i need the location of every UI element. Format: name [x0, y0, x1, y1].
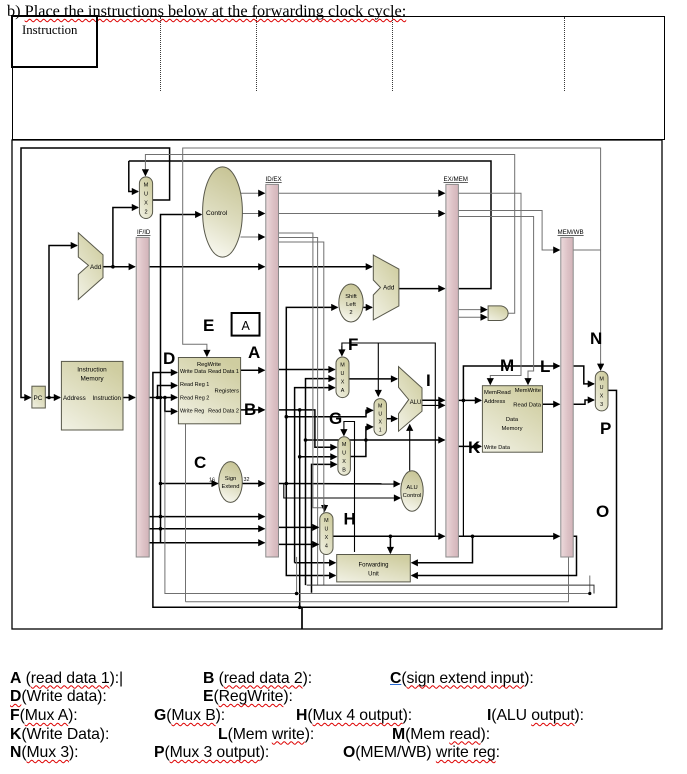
wire PC-source loop (MUX2 output to PC)	[21, 148, 170, 398]
PC register	[32, 386, 45, 408]
wire forward-A select arrow into MUX A top	[341, 346, 343, 356]
wire branch AND select loop back to MUX2	[145, 155, 514, 314]
pipeline register EX/MEM	[444, 176, 468, 557]
wire MUX 4 input 1	[279, 526, 319, 528]
diagram outer border	[12, 140, 662, 629]
wire control to ID/EX (M)	[242, 213, 264, 215]
svg-text:MemWrite: MemWrite	[515, 388, 541, 394]
svg-text:Read Reg 2: Read Reg 2	[180, 395, 209, 401]
wire immediate ID/EX to ALU control	[279, 483, 400, 485]
svg-text:A: A	[248, 343, 260, 362]
wire ALU result bypass to MEM/WB (node L area)	[463, 366, 559, 400]
node A boxed label	[232, 313, 260, 336]
wire ID/EX bottom nest	[296, 557, 298, 594]
wire MUX 3 output writeback to registers write data (nodes P and D)	[153, 373, 617, 608]
svg-text:ID/EX: ID/EX	[266, 176, 282, 183]
svg-text:O: O	[596, 502, 609, 521]
wire ALU zero flag to EX/MEM	[422, 404, 444, 406]
wire rs rt rail	[307, 585, 594, 593]
mux MUX 1 (ALUSrc)	[374, 399, 387, 436]
mux MUX B (forward B)	[338, 437, 351, 475]
wire instruction to read reg 1	[158, 386, 177, 398]
svg-text:K: K	[468, 438, 481, 457]
svg-text:32: 32	[244, 477, 250, 483]
wire write reg loop bottom	[165, 411, 590, 593]
wire AND gate input 1	[458, 309, 486, 311]
svg-text:E: E	[203, 316, 214, 335]
wire registers column to bottom nest	[185, 424, 187, 602]
svg-text:Address: Address	[63, 395, 86, 402]
wire funct field to ALU control	[284, 484, 400, 499]
mux MUX2 (PC source)	[139, 177, 152, 219]
svg-text:M: M	[342, 442, 347, 448]
svg-text:Memory: Memory	[80, 376, 104, 383]
wire instruction up to control unit	[161, 215, 202, 398]
AND gate (branch)	[488, 306, 508, 321]
svg-text:X: X	[378, 420, 382, 426]
svg-text:Address: Address	[484, 399, 505, 405]
wire data memory read data to MEM/WB	[543, 403, 560, 405]
wire B column down to forwarding unit left 1	[295, 562, 336, 564]
svg-text:Instruction: Instruction	[77, 367, 107, 374]
svg-text:Sign: Sign	[225, 476, 237, 482]
wire ALU result to EX/MEM (node I)	[422, 399, 444, 401]
wire MUX 1 output to ALU	[386, 418, 397, 420]
svg-text:Add: Add	[383, 285, 395, 292]
wire instruction field 3 to ID/EX	[149, 542, 264, 544]
control unit ellipse	[203, 167, 243, 257]
wire instruction field 1 to ID/EX	[149, 516, 264, 518]
wire forward-A select into MUX A and MUX 1 tops	[342, 343, 435, 536]
wire writeback drop to bottom border	[301, 607, 303, 629]
wire MUX B output up to MUX 1 input 2	[350, 427, 372, 457]
wire rd field down to forwarding unit left 2	[279, 242, 324, 585]
svg-text:C: C	[194, 453, 206, 472]
wire branch target into MUX2 input 1	[129, 161, 138, 192]
svg-text:I: I	[426, 371, 431, 390]
data memory box	[482, 386, 542, 453]
wire ALU control output to ALU	[409, 425, 411, 471]
instruction header cell	[11, 15, 98, 68]
ALU control ellipse	[401, 471, 423, 511]
svg-text:Write Data: Write Data	[180, 369, 207, 375]
mux MUX 3 (writeback)	[595, 371, 608, 411]
svg-text:G: G	[329, 409, 342, 428]
wire branch adder output to EX/MEM	[399, 288, 445, 290]
svg-text:16: 16	[209, 478, 215, 484]
wire shift-left-2 output to branch adder	[363, 306, 372, 308]
wire PC value up to Add	[49, 246, 77, 398]
wire read data 2 ID/EX to MUX B	[279, 410, 337, 447]
svg-text:Read Data: Read Data	[513, 403, 541, 409]
wire ALU result forward line to EX/MEM	[306, 439, 445, 441]
svg-text:M: M	[144, 183, 149, 189]
svg-text:Left: Left	[346, 302, 356, 308]
svg-text:U: U	[378, 412, 382, 418]
wire EX/MEM ALU result to data memory address	[458, 399, 481, 401]
wire MUX 4 input 2	[279, 543, 319, 545]
svg-text:Data: Data	[506, 417, 519, 423]
svg-text:4: 4	[325, 544, 328, 550]
wire read data 1 ID/EX to MUX A	[279, 369, 335, 371]
svg-text:Unit: Unit	[368, 572, 379, 578]
svg-text:L: L	[540, 357, 550, 376]
svg-text:F: F	[348, 335, 358, 354]
svg-text:M: M	[340, 363, 345, 369]
svg-text:Instruction: Instruction	[92, 395, 121, 402]
wire instruction bus IF/ID to registers read reg 2	[149, 397, 177, 399]
adder Add (PC+4)	[78, 233, 103, 300]
wire MEM/WB ALU result to MUX 3 input 1	[573, 366, 594, 384]
wire write reg number EX/MEM to MEM/WB	[458, 535, 559, 537]
sign extend ellipse	[209, 462, 250, 503]
svg-text:Memory: Memory	[502, 426, 523, 432]
svg-text:M: M	[500, 356, 514, 375]
pipeline register IF/ID	[136, 229, 151, 557]
wire forward WB to MUX B input 3	[312, 464, 337, 592]
mux MUX A (forward A)	[336, 357, 349, 398]
svg-text:U: U	[341, 371, 345, 377]
svg-text:RegWrite: RegWrite	[197, 362, 221, 368]
svg-text:MemRead: MemRead	[484, 390, 511, 396]
svg-text:IF/ID: IF/ID	[137, 229, 151, 236]
wire PC to instruction memory address	[45, 397, 60, 399]
svg-text:X: X	[144, 201, 148, 207]
svg-text:Write Data: Write Data	[484, 445, 511, 451]
pipeline register ID/EX	[266, 176, 282, 557]
svg-text:Forwarding: Forwarding	[358, 563, 388, 569]
svg-text:U: U	[324, 527, 328, 533]
wire forward EX to MUX B input 2	[300, 456, 337, 458]
svg-text:D: D	[163, 349, 175, 368]
svg-text:A: A	[242, 319, 251, 333]
wire mem-write control down to data memory	[458, 217, 533, 385]
svg-text:MEM/WB: MEM/WB	[558, 229, 584, 236]
registers box	[178, 358, 240, 424]
wire EX/MEM rd column down to rail	[462, 400, 464, 536]
svg-text:Control: Control	[403, 493, 422, 499]
svg-text:M: M	[378, 404, 382, 410]
svg-text:X: X	[325, 535, 329, 541]
svg-text:X: X	[342, 459, 346, 465]
svg-text:U: U	[342, 451, 346, 457]
title	[7, 1, 406, 21]
svg-text:M: M	[324, 518, 329, 524]
adder Add (branch target)	[373, 255, 399, 320]
svg-text:Write Reg: Write Reg	[180, 408, 204, 414]
svg-text:ALU: ALU	[410, 400, 422, 406]
wire instruction to write reg	[165, 398, 177, 412]
bottom label block	[10, 670, 123, 688]
svg-text:H: H	[344, 510, 356, 529]
wire rs field to MUX 4 top	[279, 233, 325, 509]
svg-text:Add: Add	[90, 264, 102, 271]
svg-text:Extend: Extend	[221, 484, 239, 490]
svg-text:U: U	[600, 385, 604, 391]
wire PC+4 ID/EX to branch adder	[279, 266, 372, 268]
wire write data into data memory (node K)	[458, 445, 481, 447]
wire MEM/WB read data to MUX 3 input 2	[573, 400, 594, 404]
svg-text:U: U	[144, 192, 148, 198]
svg-text:B: B	[244, 400, 256, 419]
wire instruction field 2 to ID/EX	[149, 528, 264, 530]
wire instruction down to sign extend and fields	[160, 398, 162, 543]
wire forward WB to MUX A input 3	[295, 388, 335, 563]
svg-text:Shift: Shift	[345, 294, 357, 300]
instruction memory	[61, 361, 123, 430]
wire sign extend output to ID/EX	[242, 483, 264, 485]
wire instruction memory output into IF/ID	[123, 397, 135, 399]
wire control to ID/EX (WB)	[241, 192, 265, 194]
wire PC+4 up into MUX2 input 2	[113, 208, 138, 267]
wire immediate up to shift left 2	[286, 307, 337, 483]
svg-text:A: A	[341, 388, 345, 394]
wire PC+4 IF/ID to ID/EX	[149, 266, 264, 268]
svg-text:M: M	[599, 377, 604, 383]
wire O rail to MEM/WB bottom	[186, 557, 569, 602]
wire AND gate input 2	[458, 316, 486, 318]
svg-text:Read Data 2: Read Data 2	[208, 408, 239, 414]
wire into sign extend	[161, 483, 218, 485]
mux MUX 4 (write reg number)	[320, 513, 333, 555]
shift left 2 ellipse	[339, 284, 363, 322]
svg-text:N: N	[590, 329, 602, 348]
table outer box	[12, 16, 665, 140]
svg-text:ALU: ALU	[406, 485, 417, 491]
wire MUX 4 output to EX/MEM write reg number	[333, 535, 444, 537]
wire forward select drop into MUX 1 top	[377, 343, 379, 394]
svg-text:P: P	[600, 419, 611, 438]
wire rt field down to forwarding unit left 1	[279, 238, 318, 586]
svg-text:EX/MEM: EX/MEM	[444, 176, 468, 183]
table column dotted lines	[160, 17, 161, 91]
wire node B down the forward column	[299, 410, 301, 607]
wire control ID/EX to EX/MEM line 1	[279, 192, 445, 194]
svg-text:PC: PC	[34, 395, 43, 402]
svg-text:3: 3	[600, 402, 603, 408]
wire read data 1 to ID/EX (node A)	[241, 369, 265, 371]
wire MUX A output to ALU	[349, 378, 397, 380]
wire control tee to MemtoReg column	[566, 249, 601, 251]
svg-text:2: 2	[349, 310, 352, 316]
wire read data 2 to ID/EX (node B)	[241, 409, 265, 411]
pipeline register MEM/WB	[558, 229, 584, 557]
wire mem-read control down to data memory (node M)	[458, 193, 521, 384]
wire forward-B select into MUX B top	[344, 422, 355, 553]
wire forward EX to MUX A input 2	[306, 379, 335, 585]
wire MEM/WB rd loop into forwarding unit right 2 (node O column)	[412, 536, 577, 575]
svg-text:B: B	[342, 468, 346, 474]
wire RegWrite arrow into registers top (node E)	[206, 348, 208, 356]
wire RegWrite control loop (node E) and MemtoReg select (node N)	[145, 148, 600, 602]
wire MemtoReg select arrow into MUX 3 top (node N)	[600, 362, 602, 370]
wire control to ID/EX (EX)	[241, 236, 265, 238]
wire branch target EX/MEM to top loop back to MUX2	[129, 161, 491, 289]
wire PC+4 into IF/ID	[113, 266, 135, 268]
wire EX/MEM rd down into forwarding unit right 1	[412, 536, 473, 563]
wire control EX/MEM to MEM/WB	[458, 211, 559, 251]
wire arrow into MUX 4 top	[324, 504, 326, 511]
forwarding unit box	[337, 555, 411, 582]
ALU	[399, 367, 423, 432]
wire write reg number down into forwarding unit top	[389, 536, 391, 553]
svg-text:X: X	[600, 394, 604, 400]
svg-text:Read Data 1: Read Data 1	[208, 369, 239, 375]
wire immediate to MUX 1 input 1	[286, 410, 372, 416]
wire immediate column down to forwarding unit left input 2	[286, 484, 335, 576]
svg-text:X: X	[341, 380, 345, 386]
wire control ID/EX to EX/MEM line 2	[279, 213, 445, 215]
svg-text:Registers: Registers	[215, 388, 240, 394]
svg-text:Control: Control	[206, 210, 228, 217]
svg-text:1: 1	[379, 428, 382, 434]
svg-text:Read Reg 1: Read Reg 1	[180, 382, 209, 388]
wire PC+4 from Add output	[103, 266, 113, 268]
svg-text:2: 2	[144, 210, 147, 216]
wire arrow into MUX 1 top	[377, 390, 379, 396]
